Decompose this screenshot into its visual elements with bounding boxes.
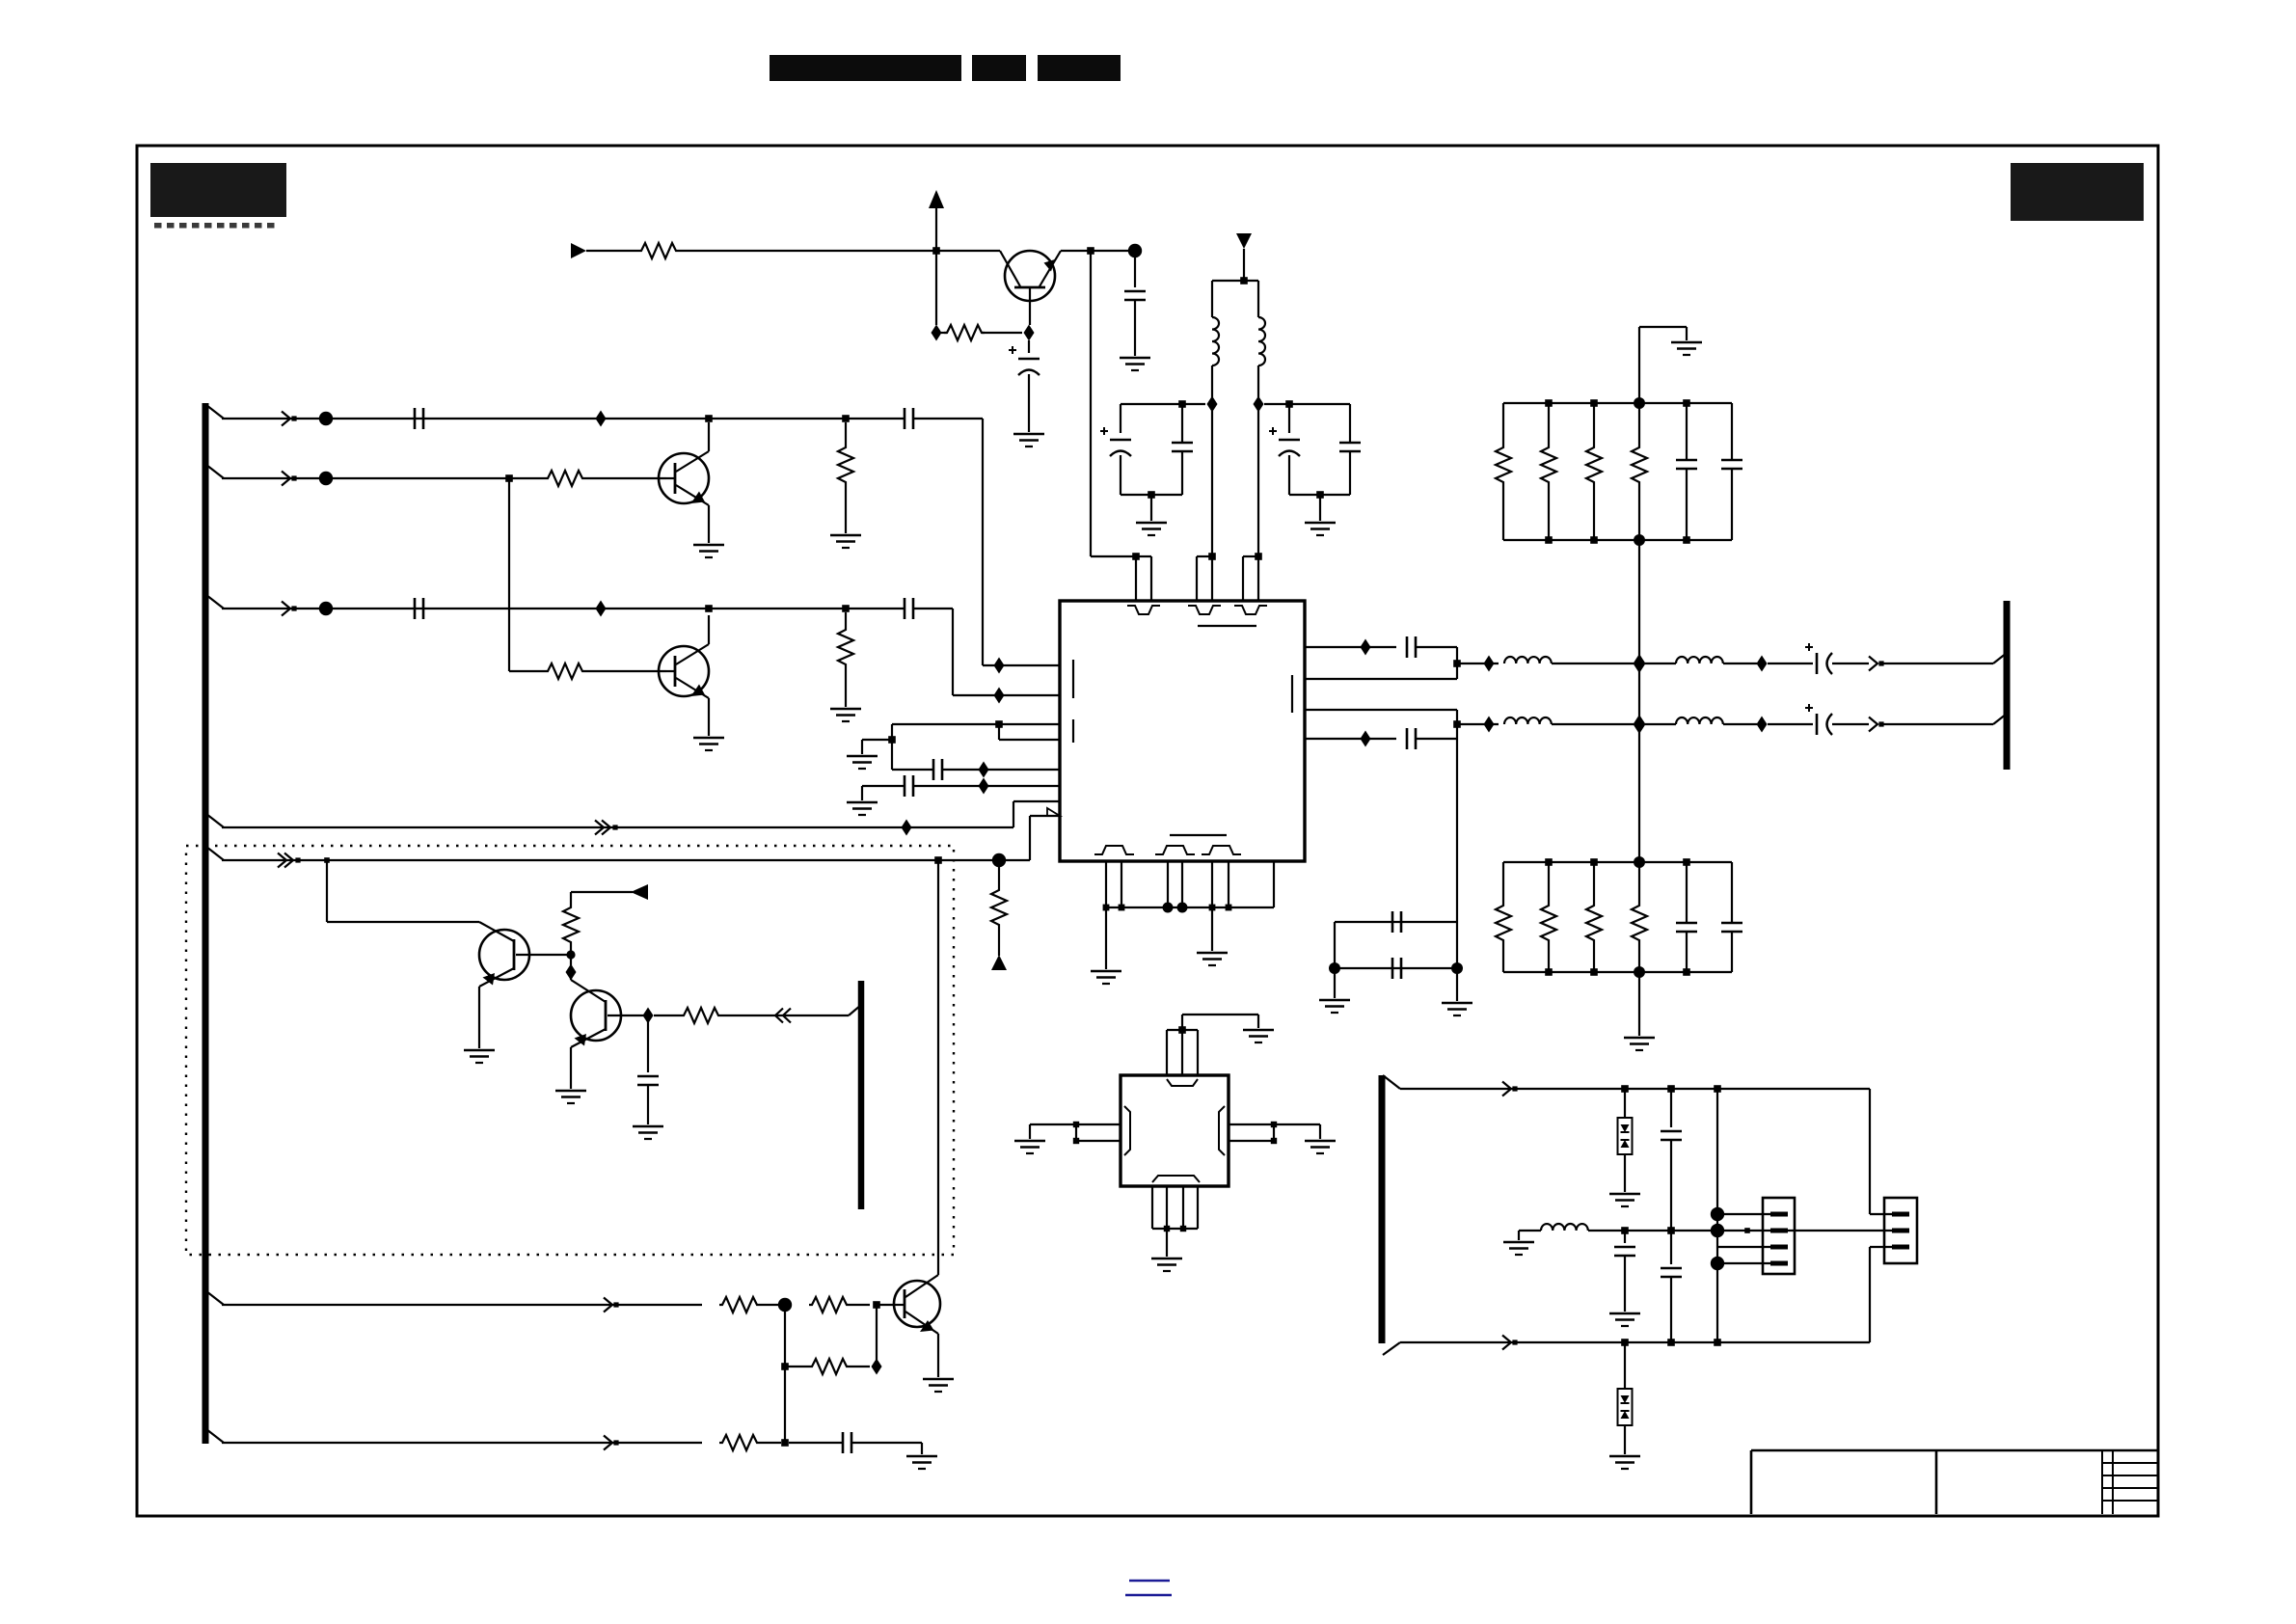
wire C15 loop — [1416, 646, 1457, 648]
U2 bottom pins — [1151, 1186, 1153, 1229]
U2 top pin — [1166, 1030, 1168, 1075]
junction bank2 bottom — [1683, 968, 1690, 976]
junction dot row2 — [319, 472, 333, 485]
wire B rise — [1029, 816, 1031, 860]
ground C12 — [847, 801, 878, 804]
junction bank2 top — [1545, 858, 1553, 866]
wire mid left — [1519, 1230, 1541, 1232]
wire conn rail — [1716, 1089, 1718, 1342]
wire C14 to ground — [851, 1442, 922, 1444]
junction bank2 top — [1590, 858, 1598, 866]
wire A — [222, 826, 1013, 828]
capacitor C18 (electrolytic) — [1816, 714, 1819, 735]
wire U1 out2 — [1305, 709, 1457, 711]
wire Q4 emitter — [570, 1047, 572, 1089]
redaction bar top 1 — [770, 55, 961, 81]
junction dot b3 — [1163, 903, 1174, 913]
junction sb3 — [1714, 1339, 1721, 1346]
wire Q3 emitter — [478, 987, 480, 1048]
diamond row3 — [596, 601, 607, 617]
junction dot Q0 node — [1128, 244, 1142, 257]
capacitor C5 (electrolytic) — [1028, 340, 1030, 353]
ground D1 — [1609, 1193, 1640, 1196]
capacitor C10 — [1349, 404, 1351, 443]
resistor R5 (row3 shunt) — [845, 612, 847, 627]
junction dot row3 — [319, 602, 333, 615]
diamond row1 — [596, 411, 607, 427]
port arrow up (AGC) — [991, 955, 1007, 970]
diamond out2 — [1361, 731, 1371, 747]
redaction box top-right — [2011, 163, 2144, 221]
U1 bottom pin notch — [1094, 846, 1134, 854]
junction dot cap loop R — [1451, 962, 1463, 974]
junction b5 — [1209, 905, 1216, 911]
wire U1 pin feed — [1090, 251, 1092, 556]
junction bank1 bottom — [1683, 536, 1690, 544]
capacitor C23 — [1686, 862, 1688, 923]
ground U1 bus left — [1105, 907, 1107, 969]
redaction box top-left — [150, 163, 286, 217]
resistor R7 (Q0 bias) — [941, 332, 947, 334]
junction b1 — [1103, 905, 1110, 911]
title block revision mini-table — [2101, 1450, 2103, 1514]
wire cap loop vertical — [1456, 739, 1458, 968]
wire L2 top — [1257, 281, 1259, 317]
ground Q5 — [923, 1378, 954, 1381]
junction right decouple gnd — [1316, 491, 1324, 499]
wire ch2 to bus — [1881, 723, 1993, 725]
junction U2 R2 — [1271, 1138, 1277, 1144]
capacitor C11 — [932, 759, 935, 780]
junction dot m3 — [1711, 1224, 1724, 1237]
U2 left pins — [1076, 1123, 1121, 1125]
transistor Q5 — [894, 1281, 940, 1327]
capacitor C1 — [414, 408, 417, 429]
CN1 pin3 wire — [1717, 1246, 1770, 1248]
wire L2 bottom — [1257, 365, 1259, 397]
bus stub — [206, 847, 224, 860]
resistor R13 — [785, 1366, 809, 1367]
capacitor C25 — [1670, 1089, 1672, 1127]
ground bank2 — [1638, 972, 1640, 1036]
wire L1 top — [1211, 281, 1213, 317]
wire Q0 to node — [1061, 250, 1135, 252]
wire ch2 out — [1832, 723, 1869, 725]
ground U2 top — [1243, 1029, 1274, 1032]
resistor R8 (sense) — [998, 860, 1000, 887]
junction U1 pin3 top — [1255, 553, 1262, 560]
chevron R10 (double left) — [775, 1009, 783, 1023]
junction bank2 bottom — [1590, 968, 1598, 976]
bank2 bottom bus — [1503, 971, 1732, 973]
junction CN1 pin2 — [1744, 1228, 1750, 1233]
wire ch1 cap lead — [1768, 663, 1813, 664]
junction bank1 top — [1590, 399, 1598, 407]
junction dot bank1 top — [1634, 397, 1645, 409]
U1 top pin box 3 — [1242, 556, 1244, 601]
wire bias arrow — [571, 891, 633, 893]
resistor R1 (row1 shunt) — [845, 422, 847, 445]
wire R6 to Q0 — [679, 250, 1000, 252]
wire ch1 — [1457, 663, 1499, 664]
diamond row1 at U1 — [994, 658, 1005, 674]
capacitor C14 — [789, 1442, 843, 1444]
wire ch1 mid2 — [1645, 663, 1676, 664]
ground U2 left — [1014, 1140, 1045, 1143]
ground Q2 emitter — [693, 737, 724, 740]
ground Q1 emitter — [693, 544, 724, 547]
resistor R6 — [638, 243, 679, 258]
junction right decouple — [1285, 400, 1293, 408]
wire cap loop top — [1335, 921, 1457, 923]
wire U1 out2b — [1305, 738, 1396, 740]
junction m2 — [1667, 1227, 1675, 1234]
ground C14 — [906, 1455, 937, 1458]
input port arrow — [571, 243, 586, 258]
connector CN1 body — [1763, 1198, 1795, 1274]
U1 internal label line top — [1198, 625, 1256, 627]
junction Q5 collector feed — [934, 856, 942, 864]
bus stub — [206, 1429, 224, 1443]
junction R13 left — [781, 1363, 789, 1370]
junction bank2 top — [1683, 858, 1690, 866]
junction dot bank2 top — [1634, 856, 1645, 868]
junction bank2 bottom — [1545, 968, 1553, 976]
junction bank1 top — [1545, 399, 1553, 407]
rail ch2 to bank2 — [1638, 730, 1640, 862]
diamond Q0 emitter node — [1024, 325, 1035, 341]
diamond VCC — [932, 325, 942, 341]
ground stub wire — [862, 739, 892, 741]
junction m1 — [1621, 1227, 1629, 1234]
page frame border — [137, 146, 2158, 1516]
capacitor C15 — [1406, 636, 1409, 658]
wire coil top — [1212, 280, 1258, 282]
IC U2 body — [1121, 1075, 1229, 1186]
wire left decouple — [1121, 403, 1205, 405]
ground C5 — [1013, 433, 1044, 436]
bus stub — [206, 1291, 224, 1305]
junction R5 node — [842, 605, 850, 612]
wire VCC down — [935, 251, 937, 325]
junction U2 L2 — [1073, 1138, 1079, 1144]
wire Q5 collector — [937, 860, 939, 1275]
inductor L4 — [1676, 657, 1723, 663]
chevron row2 — [282, 472, 290, 486]
resistor R11 — [719, 1297, 760, 1313]
IC U1 body — [1060, 601, 1305, 861]
wire ch1 mid — [1552, 663, 1634, 664]
capacitor C20 — [1391, 958, 1394, 979]
junction wire D — [781, 1439, 789, 1447]
wire cap loop bottom — [1335, 967, 1457, 969]
CN1 pin bar — [1770, 1245, 1788, 1250]
capacitor C9 (electrolytic) — [1288, 404, 1290, 433]
capacitor C3 — [414, 598, 417, 619]
inductor L7 — [1541, 1224, 1588, 1231]
connector bus bar J3 — [1379, 1075, 1386, 1343]
junction st1 — [1621, 1085, 1629, 1093]
bank1 top bus — [1503, 402, 1732, 404]
wire ch1 to bus — [1881, 663, 1993, 664]
redacted text row under top-left box — [154, 223, 162, 229]
U2 right pins — [1229, 1123, 1274, 1125]
wire A rise — [1013, 801, 1014, 827]
wire row2 — [222, 477, 545, 479]
wire ch2 cap lead — [1768, 723, 1813, 725]
capacitor C7 (electrolytic) — [1120, 404, 1121, 433]
diamond rail ch2 — [1634, 715, 1646, 734]
bus stub bottom — [1383, 1342, 1400, 1355]
junction sb1 — [1621, 1339, 1629, 1346]
junction U2 R1 — [1271, 1122, 1277, 1127]
junction Q5 base — [873, 1301, 880, 1309]
capacitor C12 — [904, 775, 906, 797]
wire Q5 emitter — [937, 1334, 939, 1377]
CN2 pin3 wire — [1870, 1246, 1892, 1248]
redaction bar top 3 — [1038, 55, 1121, 81]
diamond C11 — [979, 762, 989, 778]
wire right drop — [1869, 1089, 1871, 1214]
U2 top pin ground link — [1181, 1015, 1183, 1030]
wire B — [222, 859, 1030, 861]
antenna port arrow — [1236, 233, 1252, 249]
CN2 pin bar — [1892, 1212, 1909, 1217]
U1 bottom bus — [1106, 907, 1274, 908]
chevron section bottom — [1502, 1336, 1511, 1350]
junction U2 top — [1178, 1026, 1186, 1034]
resistor R20 — [1548, 862, 1550, 903]
junction bank1 top — [1683, 399, 1690, 407]
wire row2-row3 link — [508, 478, 510, 671]
junction sb2 — [1667, 1339, 1675, 1346]
junction VCC node — [932, 247, 940, 255]
junction dot cap loop L — [1329, 962, 1340, 974]
diamond L1 — [1207, 396, 1218, 413]
junction U1 pin2 top — [1208, 553, 1216, 560]
U1 internal pin bar left 1 — [1072, 660, 1074, 698]
junction bank1 bottom — [1545, 536, 1553, 544]
ground U2 bottom — [1166, 1229, 1168, 1257]
junction R2 node — [842, 415, 850, 422]
U1 top pin notch — [1127, 606, 1160, 614]
rail bank1 to outputs — [1638, 540, 1640, 658]
wire right decouple — [1264, 403, 1350, 405]
U1 top pin box 1 — [1135, 556, 1137, 601]
wire to R6 — [586, 250, 638, 252]
chevron wire A — [595, 821, 604, 835]
wire ch2 mid2 — [1645, 723, 1676, 725]
junction dot row1 — [319, 412, 333, 425]
redaction bar top 2 — [972, 55, 1026, 81]
wire C11 to U1 — [942, 769, 1060, 771]
chevron ch2 — [1869, 717, 1877, 732]
wire C12 to U1 — [913, 785, 1060, 787]
junction bank1 bottom — [1590, 536, 1598, 544]
junction dot c1 — [1711, 1207, 1724, 1221]
diamond ch1 a — [1484, 656, 1495, 672]
resistor R4 (Q2 base) — [509, 670, 545, 672]
wire to Q1 base — [585, 477, 666, 479]
junction left decouple gnd — [1148, 491, 1155, 499]
wire B tap — [326, 860, 328, 922]
chevron wire C — [604, 1298, 612, 1313]
U1 internal pin bar right — [1291, 675, 1293, 713]
wire cap loop left — [1334, 922, 1336, 968]
diamond L2 — [1254, 396, 1264, 413]
wire L2 to U1 pin box — [1257, 411, 1259, 601]
capacitor C4 — [904, 598, 906, 619]
bank1 bottom bus — [1503, 539, 1732, 541]
diamond Q4 base node — [643, 1008, 654, 1024]
resistor R3 (Q1 base) — [545, 471, 585, 486]
U1 clock flag — [1047, 808, 1060, 816]
U1 bottom pin notch — [1155, 846, 1195, 854]
junction Q2 collector node — [705, 605, 713, 612]
wire to Q5 base — [877, 1304, 896, 1306]
wire C12 gnd side — [861, 786, 863, 800]
connector bar (internal) — [858, 981, 865, 1209]
resistor R18 — [1638, 403, 1640, 445]
wire into U1 pin — [983, 664, 1060, 666]
wire mid — [1588, 1230, 1724, 1232]
junction dot b4 — [1177, 903, 1188, 913]
U1 internal label line bottom — [1170, 834, 1227, 836]
junction gnd stub — [888, 736, 896, 744]
chevron row3 — [282, 602, 290, 616]
junction dot bank1 bottom — [1634, 534, 1645, 546]
wire row3 drop — [952, 609, 954, 695]
resistor R16 — [1548, 403, 1550, 445]
junction b6 — [1226, 905, 1232, 911]
transistor Q4 — [571, 990, 621, 1041]
capacitor C24 — [1731, 862, 1733, 923]
bank1 ground tap — [1638, 327, 1640, 403]
U1 bottom pin right — [1273, 861, 1275, 907]
capacitor C8 — [1181, 404, 1183, 443]
output bus stub 2 — [1993, 714, 2007, 724]
bus stub — [206, 405, 224, 419]
ground right decouple — [1319, 495, 1321, 521]
wire R13 right riser — [876, 1305, 878, 1360]
chevron wire B — [278, 853, 286, 868]
ground D2 — [1609, 1455, 1640, 1458]
title block outline — [1751, 1449, 2157, 1452]
resistor R9 — [570, 892, 572, 905]
junction st2 — [1667, 1085, 1675, 1093]
ground mid-left — [1518, 1231, 1520, 1240]
junction Q1 collector node — [705, 415, 713, 422]
wire ch1 out — [1832, 663, 1869, 664]
U2 right ground link — [1274, 1123, 1320, 1125]
wire right decouple bottom — [1289, 494, 1350, 496]
wire left decouple bottom — [1121, 494, 1182, 496]
ground left decouple — [1150, 495, 1152, 521]
CN2 pin bar — [1892, 1229, 1909, 1233]
junction wire B tap — [324, 857, 330, 863]
wire C17 loop — [1416, 738, 1457, 740]
U2 top pin center lead — [1181, 1030, 1183, 1075]
resistor R19 — [1502, 862, 1504, 903]
stub to bar — [849, 1005, 861, 1015]
junction out2 — [1453, 720, 1461, 728]
inductor L1 — [1212, 317, 1219, 365]
wire D — [222, 1442, 702, 1444]
junction left decouple — [1178, 400, 1186, 408]
U2 top notch — [1167, 1079, 1198, 1086]
ground U1 bus mid — [1211, 907, 1213, 951]
wire L1 to U1 pin box — [1211, 411, 1213, 601]
diamond Q3-Q4 node — [566, 964, 577, 981]
U2 right notch — [1219, 1106, 1225, 1155]
junction row2 split — [505, 474, 513, 482]
junction dot Q3 base — [566, 950, 575, 959]
ground Q3 — [464, 1049, 495, 1052]
chevron section top — [1502, 1082, 1511, 1096]
CN1 pin1 wire — [1724, 1213, 1770, 1215]
resistor R21 — [1593, 862, 1595, 903]
junction U2 L1 — [1073, 1122, 1079, 1127]
junction b2 — [1119, 905, 1125, 911]
rail between channels — [1638, 669, 1640, 718]
U1 bottom pin notch — [1202, 846, 1241, 854]
U2 left notch — [1124, 1106, 1130, 1155]
ground C6 — [1120, 357, 1150, 360]
transistor Q2 — [659, 646, 709, 696]
transistor Q1 — [659, 453, 709, 503]
U1 top pin notch — [1234, 606, 1267, 614]
junction U2 B1 — [1164, 1226, 1170, 1232]
ground R1 — [830, 534, 861, 537]
transistor Q3 — [479, 930, 529, 980]
junction coil top — [1240, 277, 1248, 284]
junction U1 pin1 top — [1132, 553, 1140, 560]
wire ch2 — [1457, 723, 1499, 725]
chevron wire D — [604, 1436, 612, 1450]
diamond ch1 b — [1757, 656, 1768, 672]
wire to C11 — [892, 769, 933, 771]
capacitor C27 — [1670, 1231, 1672, 1264]
U2 left ground link — [1030, 1123, 1076, 1125]
input bus bar J1 — [203, 403, 209, 1444]
junction dot sense node — [992, 853, 1006, 867]
U1 bottom pin pair — [1167, 861, 1169, 907]
junction dot bank2 bottom — [1634, 966, 1645, 978]
inductor L6 — [1676, 717, 1723, 724]
resistor R10 — [654, 1015, 681, 1016]
bus stub — [206, 814, 224, 827]
wire ch2 to cap — [1723, 723, 1757, 725]
capacitor C26 — [1624, 1231, 1626, 1243]
CN2 pin bar — [1892, 1245, 1909, 1250]
wire U1 pin751 — [892, 723, 1060, 725]
junction dot c2 — [1711, 1257, 1724, 1270]
resistor R22 — [1638, 862, 1640, 903]
transistor Q0 — [1005, 251, 1055, 301]
connector CN2 body — [1884, 1198, 1917, 1263]
wire row1 — [222, 418, 905, 420]
bank2 top bus — [1503, 861, 1732, 863]
capacitor C16 (electrolytic) — [1816, 653, 1819, 674]
wire row1 drop — [982, 419, 984, 665]
wire row1 gap fix — [423, 418, 427, 420]
inductor L2 — [1258, 317, 1265, 365]
ground C26 — [1609, 1313, 1640, 1315]
port arrow left (to supply) — [631, 884, 648, 900]
CN1 pin2 wire — [1724, 1230, 1770, 1232]
U1 bottom pin pair — [1211, 861, 1213, 907]
wire ch2 mid — [1552, 723, 1634, 725]
